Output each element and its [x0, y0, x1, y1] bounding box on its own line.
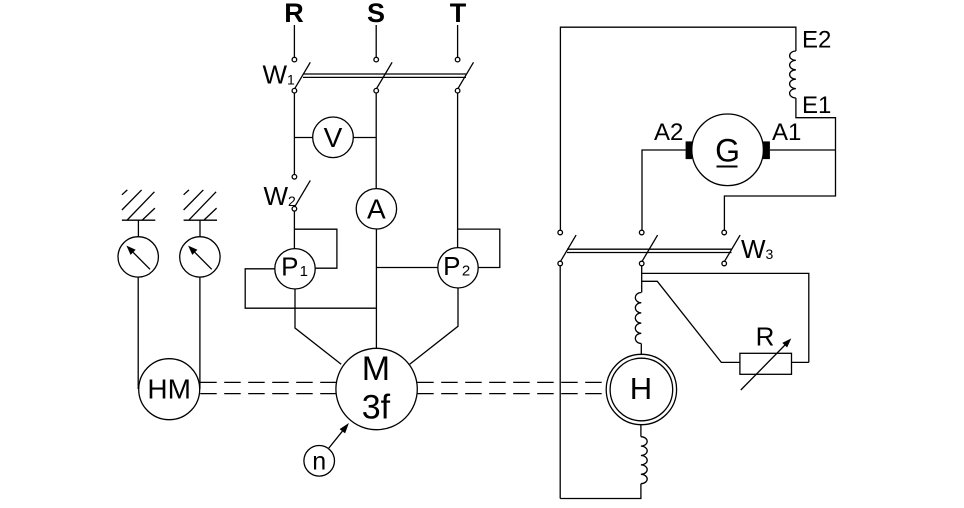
shaft dashed coupling HM to M: [200, 382, 606, 393]
tachometer n: [304, 446, 335, 477]
svg-text:E2: E2: [802, 26, 831, 53]
wire right gauge to HM: [199, 277, 201, 389]
switch W1 pole T: terminals and blade: [455, 57, 460, 62]
wire R: W1 to W2: [293, 93, 295, 175]
wire to rheostat right branch: [642, 273, 809, 362]
brush A2 (left): [686, 141, 693, 159]
wire diagonal to rheostat left: [642, 281, 740, 362]
field coil E2-E1: [790, 51, 796, 98]
wire P2 voltage loop (top right): [458, 229, 500, 267]
wire R phase drop to W1: [293, 25, 295, 57]
svg-text:HM: HM: [147, 373, 191, 404]
switch W3 gang bar: [567, 248, 732, 250]
wire A to motor (center phase): [375, 229, 377, 349]
support hatch right: [184, 219, 217, 221]
wire voltmeter to S line: [353, 137, 376, 139]
wire W2 to wattmeter P1: [293, 211, 295, 249]
svg-text:1: 1: [300, 263, 308, 280]
shaft dashed coupling M to H: [417, 381, 606, 383]
svg-text:E1: E1: [802, 92, 831, 119]
svg-text:3f: 3f: [362, 389, 391, 427]
svg-text:G: G: [715, 133, 740, 169]
wire P2 bottom to motor: [410, 288, 458, 364]
svg-text:S: S: [367, 0, 385, 28]
wire S phase drop to W1: [375, 25, 377, 57]
svg-text:W2: W2: [264, 181, 297, 211]
wire A2 brush to W3: [642, 150, 686, 230]
wire W3 left pole down the left rail: [559, 266, 561, 499]
wire A line to P2 current coil: [376, 267, 437, 269]
wire R to voltmeter: [294, 137, 312, 139]
svg-text:W3: W3: [741, 234, 774, 264]
svg-text:H: H: [630, 371, 652, 406]
svg-text:A2: A2: [654, 119, 683, 146]
ammeter A: [356, 189, 396, 229]
wire T phase drop to W1: [457, 25, 459, 57]
gauge right (dynamometer scale): [180, 237, 220, 277]
switch W1 pole S: terminals and blade: [374, 57, 379, 62]
tachometer arrow to motor: [329, 431, 343, 448]
wire top bus from G field to W3: [560, 27, 796, 230]
svg-text:A1: A1: [772, 119, 801, 146]
svg-text:n: n: [312, 448, 326, 476]
svg-text:2: 2: [462, 263, 470, 280]
svg-text:P: P: [281, 252, 298, 282]
switch W2 terminals and blade: [292, 175, 297, 180]
wire H bottom loop to left rail: [560, 484, 641, 499]
svg-text:R: R: [284, 0, 304, 28]
field coil of H (top): [635, 293, 641, 344]
wire P1 bottom to motor: [295, 289, 341, 364]
wire P1 left loop to common rail: [245, 269, 376, 308]
motor M 3f: [336, 348, 417, 429]
svg-text:P: P: [443, 251, 460, 281]
brake machine HM: [139, 359, 200, 420]
wire E1 to A1 junction: [724, 98, 835, 230]
wire T: W1 to wattmeter P2: [457, 93, 459, 248]
switch W3 pole 2: [639, 230, 644, 235]
wire S: W1 to ammeter: [375, 93, 377, 189]
svg-text:R: R: [756, 322, 775, 352]
svg-text:V: V: [324, 122, 343, 153]
switch W3 pole 3: [722, 230, 727, 235]
wattmeter P2: [438, 248, 478, 288]
switch W1 gang bar: [303, 73, 466, 75]
wire A1 brush to right bus: [770, 149, 836, 151]
voltmeter V: [313, 117, 354, 158]
machine H (double circle): [606, 354, 676, 424]
wire coil to H: [640, 344, 642, 355]
svg-text:W1: W1: [263, 59, 296, 89]
brush A1 (right): [763, 141, 770, 159]
svg-text:A: A: [367, 194, 386, 225]
gauge left (dynamometer scale): [118, 237, 158, 277]
switch W1 pole R: terminals and blade: [292, 57, 297, 62]
wattmeter P1: [275, 249, 315, 289]
switch W3 pole 1: [558, 230, 563, 235]
field coil of H (bottom): [641, 437, 647, 484]
svg-text:T: T: [450, 0, 467, 28]
svg-text:M: M: [362, 350, 390, 388]
wire W3 middle pole down: [641, 266, 643, 293]
rheostat R: [740, 353, 792, 374]
wire rheostat right side: [792, 361, 809, 363]
support hatch left: [122, 219, 155, 221]
generator G: [692, 114, 764, 186]
wire H bottom to coil: [640, 425, 642, 437]
wire left gauge to HM: [137, 277, 139, 389]
wire P1 voltage loop (top right): [294, 229, 337, 268]
